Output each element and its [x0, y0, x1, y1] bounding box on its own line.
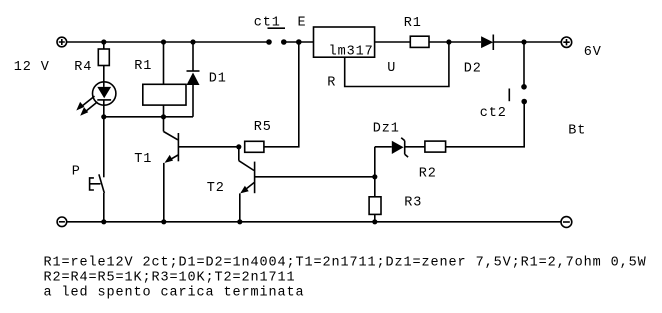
- contact ct1 right: [281, 39, 287, 45]
- wire top rail left: [67, 41, 269, 43]
- svg-text:R1=rele12V 2ct;D1=D2=1n4004;T1: R1=rele12V 2ct;D1=D2=1n4004;T1=2n1711;Dz…: [44, 255, 647, 270]
- wire zener corner down to node: [374, 147, 376, 177]
- svg-text:ct1: ct1: [254, 16, 281, 31]
- svg-text:R1: R1: [134, 59, 152, 74]
- wire lm317 out to R1: [375, 41, 411, 43]
- contact ct1 left: [266, 39, 272, 45]
- svg-text:6V: 6V: [584, 45, 602, 60]
- svg-text:R3: R3: [404, 196, 422, 211]
- svg-text:Dz1: Dz1: [373, 122, 400, 137]
- transistor T2: [239, 147, 375, 222]
- zener Dz1: [375, 138, 425, 157]
- svg-text:Bt: Bt: [568, 124, 586, 139]
- switch ct2: [446, 42, 527, 147]
- svg-text:U: U: [387, 61, 396, 76]
- node R3 bottom: [372, 219, 377, 224]
- svg-text:R5: R5: [254, 120, 272, 135]
- diode D2: [481, 35, 561, 51]
- wire top rail between ct1 and E: [284, 41, 314, 43]
- node R4 top: [101, 39, 106, 44]
- node T1 base / R5: [236, 144, 241, 149]
- node P bottom: [101, 219, 106, 224]
- wire LED node to switch P: [103, 117, 105, 178]
- terminal +6V: [561, 37, 571, 47]
- wire ADJ feedback R: [345, 42, 449, 87]
- svg-text:a led spento carica terminata: a led spento carica terminata: [44, 285, 305, 300]
- node relay bottom: [161, 114, 166, 119]
- svg-text:P: P: [72, 165, 81, 180]
- node D1 top: [190, 39, 195, 44]
- transistor T1: [164, 117, 239, 222]
- node relay top: [161, 39, 166, 44]
- node LED bottom: [101, 114, 106, 119]
- svg-text:12 V: 12 V: [14, 60, 50, 75]
- resistor R1 (top): [410, 36, 429, 47]
- svg-text:T2: T2: [207, 181, 225, 196]
- resistor R4: [98, 42, 109, 87]
- LED DL1: [93, 82, 116, 117]
- resistor R2: [425, 141, 446, 152]
- svg-text:R2=R4=R5=1K;R3=10K;T2=2n1711: R2=R4=R5=1K;R3=10K;T2=2n1711: [44, 270, 296, 285]
- node ct2 top: [521, 39, 526, 44]
- svg-text:ct2: ct2: [480, 106, 507, 121]
- wire R1 to D2: [429, 41, 481, 43]
- regulator U lm317: [314, 27, 375, 60]
- svg-text:D1: D1: [209, 72, 227, 87]
- switch ct1 blade: [268, 27, 286, 29]
- pushbutton P: [90, 174, 105, 222]
- resistor R3: [369, 177, 381, 222]
- svg-text:R: R: [327, 76, 336, 91]
- node T2 base / R3: [372, 174, 377, 179]
- svg-text:T1: T1: [134, 152, 152, 167]
- wire bottom rail: [67, 221, 561, 223]
- diode D1: [187, 42, 200, 117]
- svg-text:E: E: [298, 16, 307, 31]
- svg-text:lm317: lm317: [329, 45, 374, 60]
- terminal -12V (bottom-left): [57, 217, 67, 227]
- node T2 emitter bottom: [237, 219, 242, 224]
- terminal +12V (top-left): [57, 37, 67, 47]
- svg-text:R4: R4: [74, 60, 92, 75]
- relay coil R1: [143, 42, 186, 117]
- wire node row y117: [104, 116, 193, 118]
- node R feedback top: [446, 39, 451, 44]
- LED arrows: [76, 96, 97, 116]
- node E: [296, 39, 302, 45]
- svg-text:D2: D2: [464, 62, 482, 77]
- resistor R5: [245, 42, 299, 152]
- svg-text:R1: R1: [404, 16, 422, 31]
- svg-text:R2: R2: [419, 167, 437, 182]
- terminal - (bottom-right): [561, 217, 572, 228]
- node T1 emitter bottom: [161, 219, 166, 224]
